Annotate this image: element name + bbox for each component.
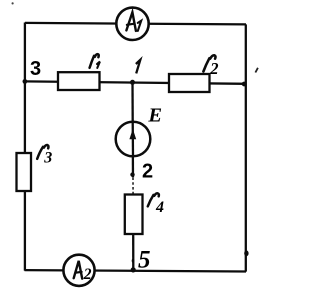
svg-text:2: 2 — [83, 266, 92, 283]
svg-text:3: 3 — [30, 58, 41, 80]
svg-text:3: 3 — [43, 149, 52, 166]
svg-text:E: E — [147, 105, 162, 127]
svg-text:2: 2 — [209, 59, 218, 78]
svg-text:4: 4 — [155, 199, 164, 216]
svg-text:5: 5 — [138, 247, 151, 274]
svg-text:2: 2 — [142, 160, 153, 182]
